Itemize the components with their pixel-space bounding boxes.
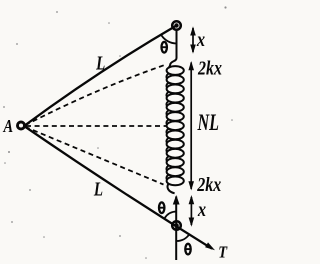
label 2kx bottom xyxy=(196,173,221,195)
label x top xyxy=(196,29,205,51)
label L top xyxy=(95,51,105,74)
scan speckles (noise) xyxy=(3,6,233,258)
svg-text:NL: NL xyxy=(197,110,219,135)
svg-text:x: x xyxy=(197,199,206,221)
label 2kx top xyxy=(197,57,222,79)
svg-text:A: A xyxy=(3,116,14,137)
angle arc above bottom pin xyxy=(165,212,177,218)
angle arc below bottom pin xyxy=(177,234,190,241)
wire rod A to top pin xyxy=(24,26,177,127)
bottom pin xyxy=(172,221,181,230)
measurement x bottom double arrow xyxy=(190,197,192,225)
label T xyxy=(218,244,228,262)
svg-text:x: x xyxy=(196,29,205,51)
dashed line A to spring top xyxy=(25,65,166,126)
link from top pin to spring xyxy=(168,29,176,68)
svg-text:L: L xyxy=(93,177,103,200)
label L bottom xyxy=(93,177,103,200)
svg-text:2kx: 2kx xyxy=(197,57,222,79)
pivot ring A xyxy=(18,122,25,129)
vertical link spring to bottom pin and below xyxy=(175,197,177,261)
wire rod A to bottom pin extended to T xyxy=(24,126,212,249)
spring bottom tail xyxy=(168,184,175,194)
top pin xyxy=(172,21,181,30)
arrowhead T xyxy=(205,242,215,250)
svg-text:T: T xyxy=(218,244,228,262)
label theta bottom xyxy=(185,244,192,255)
measurement NL line with end arrows xyxy=(190,63,192,190)
angle arc at top pin xyxy=(162,35,177,43)
dashed line A to spring bottom xyxy=(25,127,164,185)
svg-text:2kx: 2kx xyxy=(196,173,221,195)
svg-text:L: L xyxy=(95,51,105,74)
label A xyxy=(3,116,14,137)
label x bottom xyxy=(197,199,206,221)
spring coil left tails xyxy=(166,73,169,180)
spring force arrowhead up xyxy=(173,195,180,205)
label theta middle xyxy=(158,202,165,213)
label NL xyxy=(197,110,219,135)
dashed line A to spring middle (horizontal) xyxy=(26,125,166,127)
label theta top xyxy=(161,42,168,53)
spring coil xyxy=(167,66,184,185)
measurement x top double arrow xyxy=(192,28,194,52)
